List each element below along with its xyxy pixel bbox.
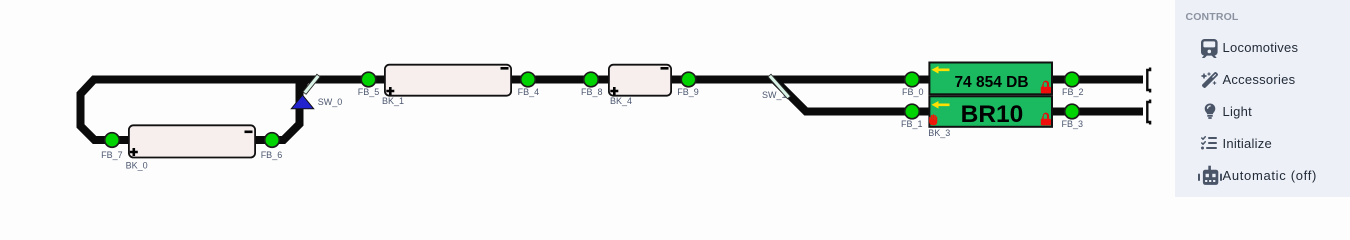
svg-text:FB_7: FB_7	[101, 150, 123, 160]
svg-text:BR10: BR10	[961, 101, 1024, 128]
svg-text:FB_6: FB_6	[261, 150, 283, 160]
svg-text:SW_0: SW_0	[318, 97, 343, 107]
svg-text:FB_2: FB_2	[1062, 87, 1084, 97]
svg-text:FB_9: FB_9	[677, 87, 699, 97]
svg-text:FB_5: FB_5	[358, 87, 380, 97]
svg-text:FB_0: FB_0	[902, 87, 924, 97]
svg-text:FB_1: FB_1	[901, 119, 923, 129]
svg-text:FB_4: FB_4	[518, 87, 540, 97]
svg-text:BK_3: BK_3	[928, 128, 950, 138]
svg-text:FB_3: FB_3	[1062, 119, 1084, 129]
svg-text:BK_0: BK_0	[126, 160, 148, 170]
svg-text:BK_1: BK_1	[382, 96, 404, 106]
svg-text:74 854 DB: 74 854 DB	[954, 74, 1028, 91]
svg-text:FB_8: FB_8	[581, 87, 603, 97]
svg-text:BK_4: BK_4	[610, 96, 632, 106]
